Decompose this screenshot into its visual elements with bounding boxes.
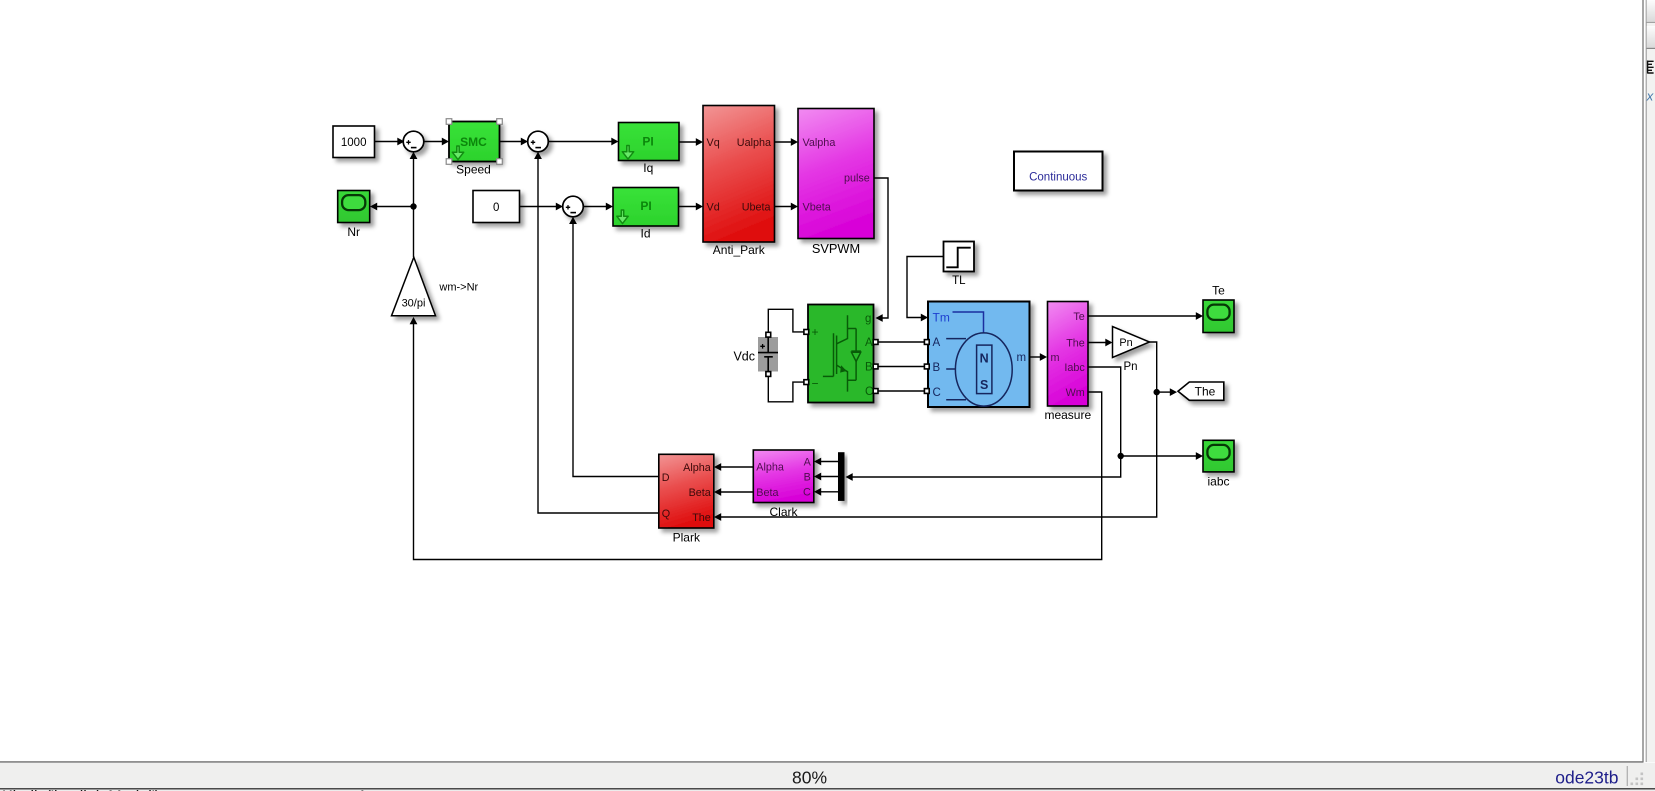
PI controller block Id <box>613 188 679 227</box>
canvas bottom border <box>0 761 1644 763</box>
constant block 1000 <box>333 126 375 158</box>
svg-text:Id: Id <box>640 226 650 240</box>
SMC down-arrow icon <box>452 146 463 160</box>
svg-text:B: B <box>804 471 811 483</box>
wire Clark Alpha to Plark Alpha <box>714 463 753 471</box>
svg-text:measure: measure <box>1044 408 1091 422</box>
svg-text:Valpha: Valpha <box>803 137 836 149</box>
Plark transform block <box>659 454 714 528</box>
svg-text:Beta: Beta <box>756 487 778 499</box>
motor icon lines <box>953 312 984 333</box>
svg-text:PI: PI <box>640 199 651 213</box>
svg-text:SMC: SMC <box>460 135 487 149</box>
resize grip <box>1641 783 1644 786</box>
wire sum3 to PI Id <box>584 203 614 211</box>
svg-text:Plark: Plark <box>673 531 701 545</box>
status bar bottom line <box>0 788 1655 790</box>
The goto tag <box>1178 382 1224 400</box>
PI controller block Iq <box>619 123 680 161</box>
inverter port squares <box>804 330 809 335</box>
PI Id down-arrow icon <box>617 210 628 224</box>
Vdc DC voltage source <box>758 337 778 372</box>
wire Vdc minus to inverter minus <box>768 375 803 402</box>
measure subsystem block <box>1048 302 1089 407</box>
svg-text:Nr: Nr <box>347 225 360 239</box>
wire inverter B to motor B <box>876 366 927 368</box>
sum junction S1 <box>403 131 424 152</box>
svg-text:80%: 80% <box>792 767 827 787</box>
PI Iq down-arrow icon <box>622 146 633 160</box>
svg-text:C: C <box>933 387 941 399</box>
svg-text:Clark: Clark <box>769 505 798 519</box>
svg-text:N: N <box>980 351 989 365</box>
status bar separator <box>1626 766 1628 786</box>
svg-text:m: m <box>1017 352 1027 364</box>
wire demux to Clark C <box>814 488 838 496</box>
svg-text:−: − <box>812 377 819 391</box>
inverter IGBT diode icon <box>823 315 861 391</box>
wire demux to Clark A <box>814 458 838 466</box>
wire Ubeta to Vbeta <box>775 203 799 211</box>
TL step source block <box>944 242 975 272</box>
wire sum1 to SMC <box>424 138 449 146</box>
svg-text:SVPWM: SVPWM <box>812 241 860 256</box>
motor port squares <box>924 340 929 345</box>
svg-text:Alpha: Alpha <box>683 462 711 474</box>
Pn gain triangle <box>1113 327 1150 358</box>
svg-text:pulse: pulse <box>844 173 870 185</box>
svg-text:Tm: Tm <box>933 310 950 324</box>
sidebar second button <box>1647 26 1655 48</box>
sum junction S3 <box>563 196 584 217</box>
svg-text:Speed: Speed <box>456 162 491 176</box>
wire 0 to sum3 <box>520 203 564 211</box>
svg-text:TL: TL <box>952 275 966 287</box>
svg-text:C: C <box>865 386 873 398</box>
svg-text:PI: PI <box>642 135 653 149</box>
wire Vdc plus to inverter plus <box>768 309 803 333</box>
partial window text behind <box>0 790 1655 791</box>
wire demux to Clark B <box>814 473 838 481</box>
motor magnet N S <box>977 345 992 394</box>
Te scope block <box>1203 300 1234 333</box>
svg-text:A: A <box>933 337 941 349</box>
wire gain 30/pi to sum1 and Nr scope <box>370 152 417 257</box>
wire SVPWM pulse to inverter g <box>875 178 889 322</box>
Nr scope block <box>338 191 370 223</box>
Continuous powergui block <box>1014 152 1103 191</box>
wire 1000 to sum1 <box>375 138 405 146</box>
demux bar <box>838 452 845 501</box>
constant block 0 <box>473 191 520 223</box>
wire SMC to sum2 <box>500 138 529 146</box>
iabc scope block <box>1203 440 1234 472</box>
wire Plark Q to sum2 <box>534 152 659 513</box>
universal bridge inverter block <box>808 305 874 403</box>
PMSM motor block <box>928 302 1030 408</box>
Vdc battery symbol <box>758 337 778 374</box>
wire PI Id to Vd <box>679 203 704 211</box>
svg-text:x: x <box>1646 89 1654 104</box>
svg-text:Ubeta: Ubeta <box>742 201 771 213</box>
wire PI Iq to Vq <box>679 138 703 146</box>
svg-text:Anti_Park: Anti_Park <box>713 243 766 257</box>
svg-text:30/pi: 30/pi <box>402 297 426 309</box>
wire Plark D to sum3 <box>569 217 659 477</box>
wire sum2 to PI Iq <box>549 138 619 146</box>
junction on The wire <box>1154 389 1160 395</box>
svg-text:wm->Nr: wm->Nr <box>438 281 478 293</box>
wire motor m to measure <box>1030 353 1048 361</box>
Anti_Park subsystem block <box>703 106 775 243</box>
svg-text:m: m <box>1051 352 1060 364</box>
svg-text:+: + <box>812 325 819 339</box>
svg-text:The: The <box>1195 385 1216 399</box>
svg-text:C: C <box>803 487 811 499</box>
wire inverter A to motor A <box>876 341 927 343</box>
svg-text:Alpha: Alpha <box>756 462 784 474</box>
TL step icon <box>946 248 970 268</box>
wire inverter C to motor C <box>876 390 927 392</box>
svg-text:Vbeta: Vbeta <box>803 201 831 213</box>
svg-text:Wm: Wm <box>1066 387 1085 399</box>
sum junction S2 <box>528 131 549 152</box>
gain 30/pi triangle <box>392 257 436 316</box>
svg-text:S: S <box>980 378 988 392</box>
svg-text:Vd: Vd <box>707 201 720 213</box>
wire Pn gain to The goto tag and Plark The <box>714 342 1177 521</box>
sidebar top button <box>1647 0 1655 22</box>
SMC controller block (selected) <box>449 122 500 162</box>
wire measure Wm to gain 30/pi <box>410 317 1102 560</box>
canvas right border <box>1642 0 1644 762</box>
svg-text:Pn: Pn <box>1119 337 1132 349</box>
svg-text:1000: 1000 <box>341 137 367 149</box>
svg-text:Te: Te <box>1073 311 1084 323</box>
svg-text:0: 0 <box>493 202 499 214</box>
svg-text:g: g <box>865 313 871 325</box>
svg-text:Te: Te <box>1212 284 1225 298</box>
wire Clark Beta to Plark Beta <box>714 488 753 496</box>
Clark transform block <box>753 450 814 503</box>
svg-text:A: A <box>804 456 812 468</box>
svg-text:B: B <box>933 362 941 374</box>
wire measure Iabc to demux and iabc scope <box>846 367 1204 481</box>
wire measure Te to Te scope <box>1088 312 1203 320</box>
svg-text:ode23tb: ode23tb <box>1555 768 1618 788</box>
svg-text:Ualpha: Ualpha <box>737 137 771 149</box>
svg-text:Vdc: Vdc <box>733 349 755 363</box>
svg-text:Beta: Beta <box>689 487 711 499</box>
motor rotor ellipse <box>955 333 1012 406</box>
sidebar ruler icon <box>1648 61 1654 74</box>
svg-text:B: B <box>865 362 873 374</box>
wire measure The to Pn gain <box>1088 339 1113 347</box>
svg-text:Vq: Vq <box>707 137 720 149</box>
wire TL to motor Tm <box>907 257 944 322</box>
svg-text:Iabc: Iabc <box>1064 362 1085 374</box>
svg-text:Iq: Iq <box>643 161 653 175</box>
status bar <box>0 763 1655 789</box>
svg-text:Pn: Pn <box>1123 361 1137 373</box>
svg-text:D: D <box>662 472 670 484</box>
svg-text:A: A <box>865 337 873 349</box>
svg-text:The: The <box>692 512 711 524</box>
svg-text:iabc: iabc <box>1207 475 1229 489</box>
junction on iabc wire <box>1118 453 1124 459</box>
svg-text:The: The <box>1066 337 1085 349</box>
svg-text:Continuous: Continuous <box>1029 171 1087 183</box>
Vdc port squares <box>766 332 771 337</box>
wire Ualpha to Valpha <box>775 138 799 146</box>
selection handles of SMC <box>446 119 452 125</box>
SVPWM subsystem block <box>798 109 874 239</box>
right sidebar strip <box>1647 0 1655 762</box>
svg-text:Q: Q <box>662 508 670 520</box>
junction on Nr wire <box>410 203 416 209</box>
